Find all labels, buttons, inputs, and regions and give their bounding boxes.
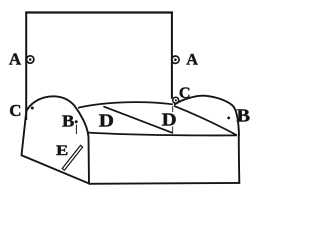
- svg-text:B: B: [237, 105, 251, 125]
- left arm outline: [22, 96, 90, 183]
- dot C left: [31, 107, 34, 110]
- seat back edge (line T): [78, 102, 173, 108]
- back panel left edge: [25, 12, 27, 120]
- pivot dot A left: [29, 58, 32, 61]
- seat fold diagonal (line G): [103, 106, 172, 132]
- pivot ring A left: [27, 56, 34, 63]
- back panel right edge: [171, 12, 173, 99]
- pivot ring C right: [173, 97, 179, 103]
- svg-text:E: E: [56, 143, 68, 159]
- svg-text:A: A: [9, 49, 22, 68]
- hairline below pivot C right: [172, 106, 174, 134]
- lever rod near E: [62, 145, 82, 170]
- dot B right: [227, 117, 230, 120]
- pivot dot A right: [174, 58, 177, 61]
- svg-text:C: C: [9, 101, 21, 120]
- svg-text:B: B: [62, 111, 74, 130]
- seat right back edge (line R): [174, 106, 237, 136]
- back panel top edge: [25, 11, 173, 13]
- pivot dot C right: [175, 99, 177, 101]
- svg-text:A: A: [186, 51, 198, 68]
- right arm curve: [174, 96, 239, 136]
- pivot ring A right: [172, 56, 179, 63]
- box right edge: [238, 135, 241, 184]
- box bottom edge: [89, 182, 240, 185]
- dot B left: [75, 120, 78, 123]
- svg-text:D: D: [99, 111, 114, 131]
- hinge line below dot B: [75, 125, 77, 135]
- seat front top edge (line F): [89, 133, 237, 136]
- svg-text:D: D: [162, 110, 177, 130]
